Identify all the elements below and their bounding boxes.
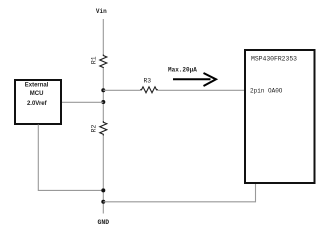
svg-text:2pin OA0O: 2pin OA0O [250, 88, 283, 95]
junction node A (to R3) [101, 88, 105, 92]
block External MCU [15, 80, 61, 124]
svg-text:External: External [25, 82, 49, 88]
svg-text:R2: R2 [91, 125, 98, 133]
svg-text:R1: R1 [91, 56, 98, 64]
wire External MCU to node B [61, 101, 103, 103]
resistor R1 [100, 55, 107, 69]
wire R1 to R2 [102, 68, 104, 121]
resistor R3 [140, 87, 158, 93]
svg-text:R3: R3 [143, 78, 151, 85]
svg-text:Max.20μA: Max.20μA [168, 67, 197, 74]
junction ground node 2 [101, 200, 105, 204]
svg-text:MCU: MCU [30, 91, 44, 97]
junction ground node 1 [101, 188, 105, 192]
svg-text:MSP430FR2353: MSP430FR2353 [251, 56, 297, 63]
svg-text:2.0Vref: 2.0Vref [27, 101, 48, 107]
wire ground junction to MSP430 bottom [103, 183, 255, 202]
junction node B (to External MCU) [101, 100, 105, 104]
IC U1 MSP430FR2353 [245, 50, 315, 183]
wire node A to R3 [103, 89, 140, 91]
wire R3 to MSP430 pin [158, 89, 244, 91]
current flow arrow [173, 78, 211, 80]
svg-text:Vin: Vin [96, 8, 107, 15]
wire Vin to R1 [102, 19, 104, 55]
svg-text:GND: GND [98, 219, 110, 226]
wire R2 to GND rail [102, 136, 104, 214]
resistor R2 [100, 121, 107, 136]
wire External MCU bottom to ground junction [38, 125, 103, 191]
